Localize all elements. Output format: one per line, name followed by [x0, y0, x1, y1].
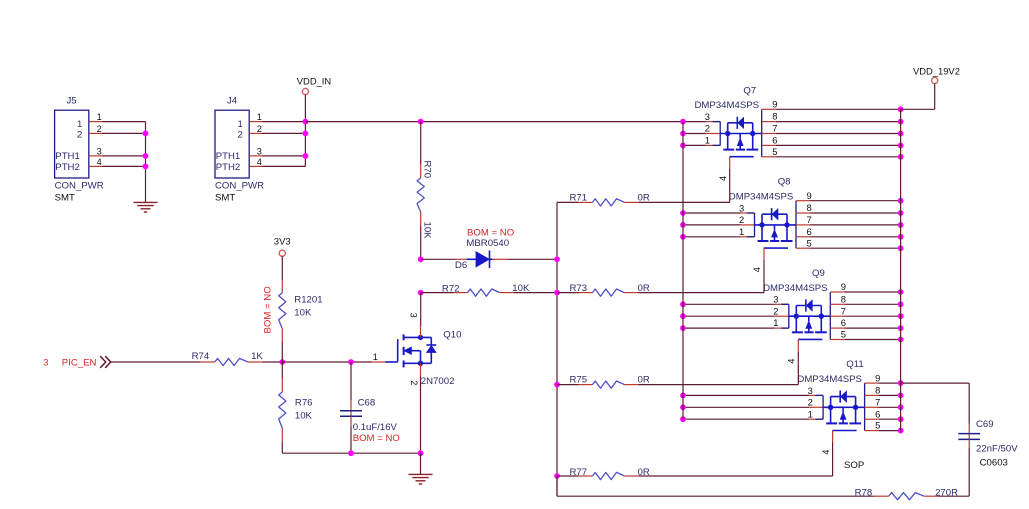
transistor Q10 labels [421, 329, 462, 387]
J5 pin numbers [97, 112, 102, 167]
transistor Q7 pin 4 label [718, 176, 728, 181]
svg-text:4: 4 [97, 157, 102, 167]
svg-text:2: 2 [409, 380, 419, 385]
svg-text:PTH1: PTH1 [216, 151, 241, 162]
wire R77 to gate pin 4 [832, 431, 834, 477]
svg-text:Q9: Q9 [812, 268, 825, 279]
svg-text:DMP34M4SPS: DMP34M4SPS [695, 100, 760, 111]
svg-text:DMP34M4SPS: DMP34M4SPS [729, 192, 794, 203]
svg-text:4: 4 [821, 450, 831, 455]
svg-text:10K: 10K [295, 410, 313, 421]
svg-text:1: 1 [773, 317, 778, 328]
diode D6 [455, 228, 514, 271]
node 3V3 [274, 236, 291, 257]
svg-text:VDD_IN: VDD_IN [297, 76, 331, 87]
svg-text:PIC_EN: PIC_EN [62, 357, 97, 368]
transistor Q8 pin numbers 3 2 1 [739, 202, 744, 237]
transistor Q9 labels [763, 268, 828, 294]
svg-text:8: 8 [772, 111, 777, 122]
transistor Q8 right pin box [795, 201, 797, 249]
svg-text:4: 4 [752, 267, 762, 272]
transistor Q8 drain pin wires [796, 198, 903, 251]
svg-text:4: 4 [718, 176, 728, 181]
connector J4 [215, 96, 264, 204]
transistor Q8 pin wires 3 2 1 [680, 210, 754, 240]
svg-text:2: 2 [257, 124, 262, 134]
svg-text:5: 5 [875, 420, 880, 431]
svg-text:9: 9 [807, 190, 812, 201]
svg-text:22nF/50V: 22nF/50V [976, 444, 1018, 455]
svg-text:7: 7 [841, 305, 846, 316]
svg-text:R78: R78 [855, 487, 873, 498]
svg-text:0R: 0R [638, 375, 650, 386]
svg-text:Q10: Q10 [443, 329, 461, 340]
transistor Q7 right pin box [761, 109, 763, 157]
transistor Q8 PMOS symbol [755, 208, 797, 248]
svg-text:8: 8 [807, 202, 812, 213]
svg-text:2: 2 [97, 124, 102, 134]
svg-text:1: 1 [808, 408, 813, 419]
wire VDD_IN bus [305, 119, 683, 125]
svg-text:1: 1 [257, 112, 262, 122]
transistor Q9 drain pin wires [830, 289, 903, 342]
transistor Q11 PMOS symbol [823, 391, 865, 431]
transistor Q11 pin numbers 3 2 1 [808, 385, 813, 420]
wire VDD_IN riser [303, 95, 309, 167]
ground [134, 202, 158, 212]
transistor Q8 labels [729, 177, 794, 203]
svg-text:J4: J4 [227, 96, 238, 107]
svg-text:SMT: SMT [55, 193, 75, 204]
wire PIC_EN to Q10 gate [279, 359, 385, 365]
svg-text:R75: R75 [570, 375, 588, 386]
svg-text:0.1uF/16V: 0.1uF/16V [353, 422, 398, 433]
transistor Q8 left pin box [747, 213, 755, 237]
wire D6 anode [418, 256, 467, 262]
transistor Q7 pin numbers 3 2 1 [705, 111, 710, 146]
wire gate distribution bus [554, 202, 560, 496]
svg-text:2N7002: 2N7002 [421, 376, 455, 387]
resistor R70 [417, 122, 433, 260]
svg-text:0R: 0R [638, 467, 650, 478]
svg-text:CON_PWR: CON_PWR [55, 181, 104, 192]
transistor Q8 pin 4 label [752, 267, 762, 272]
svg-text:2: 2 [237, 130, 242, 141]
transistor Q9 left pin box [781, 304, 789, 328]
transistor Q7 drain pin wires [762, 106, 904, 159]
svg-text:3: 3 [773, 294, 778, 305]
transistor Q7 PMOS symbol [720, 117, 762, 157]
transistor Q11 labels [797, 359, 863, 385]
transistor Q9 pin numbers 3 2 1 [773, 294, 778, 329]
svg-text:3: 3 [97, 146, 102, 156]
svg-text:C69: C69 [976, 419, 994, 430]
wire VDD rail vertical [682, 122, 684, 420]
svg-text:0R: 0R [638, 283, 650, 294]
svg-text:2: 2 [773, 305, 778, 316]
svg-text:10K: 10K [422, 222, 433, 240]
svg-text:J5: J5 [67, 96, 77, 107]
svg-text:C68: C68 [358, 398, 376, 409]
svg-text:R73: R73 [570, 283, 588, 294]
transistor Q7 left pin box [713, 122, 721, 146]
svg-text:BOM = NO: BOM = NO [353, 433, 400, 444]
wire ground net [282, 450, 423, 456]
svg-text:R72: R72 [442, 283, 460, 294]
svg-text:R76: R76 [295, 398, 313, 409]
svg-text:BOM = NO: BOM = NO [263, 286, 274, 333]
wire D6 cathode [493, 258, 557, 260]
J5 pin wires [89, 122, 146, 167]
J4 pin numbers [257, 112, 262, 167]
svg-text:D6: D6 [455, 260, 467, 271]
capacitor C68 [340, 362, 400, 453]
svg-text:1: 1 [373, 352, 378, 362]
label SOP [844, 460, 864, 471]
svg-text:1: 1 [77, 119, 82, 130]
node VDD_IN [297, 76, 331, 95]
svg-text:R70: R70 [422, 161, 433, 179]
svg-text:SMT: SMT [215, 193, 235, 204]
svg-text:3: 3 [739, 202, 744, 213]
svg-text:9: 9 [772, 99, 777, 110]
wire Q11 pin9 to C69 [901, 383, 970, 434]
svg-text:SOP: SOP [844, 460, 864, 471]
resistor R73 [557, 283, 764, 296]
svg-text:PTH2: PTH2 [55, 162, 80, 173]
svg-text:1: 1 [97, 112, 102, 122]
svg-text:4: 4 [257, 157, 262, 167]
svg-text:10K: 10K [294, 308, 312, 319]
node PIC_EN off-page connector [43, 356, 111, 368]
svg-text:7: 7 [772, 123, 777, 134]
svg-text:1: 1 [705, 135, 710, 146]
svg-text:BOM = NO: BOM = NO [467, 228, 514, 239]
svg-text:1: 1 [739, 226, 744, 237]
svg-text:Q11: Q11 [846, 359, 863, 370]
svg-text:PTH2: PTH2 [216, 162, 241, 173]
svg-text:Q8: Q8 [778, 177, 791, 188]
svg-text:3: 3 [257, 146, 262, 156]
wire VDD_19V2 riser [901, 84, 935, 110]
J4 pin wires [249, 122, 305, 167]
transistor Q9 pin 4 label [787, 359, 797, 364]
svg-text:9: 9 [841, 281, 846, 292]
transistor Q11 drain pin wires [865, 380, 904, 433]
svg-text:VDD_19V2: VDD_19V2 [913, 65, 960, 76]
svg-text:6: 6 [841, 317, 846, 328]
transistor Q9 pin numbers 9 8 7 6 5 [841, 281, 846, 339]
svg-text:DMP34M4SPS: DMP34M4SPS [797, 374, 862, 385]
transistor Q11 left pin box [816, 395, 824, 419]
wire drain bus vertical [900, 109, 902, 430]
svg-text:R1201: R1201 [294, 295, 322, 306]
svg-text:PTH1: PTH1 [55, 151, 80, 162]
svg-text:2: 2 [77, 130, 82, 141]
svg-text:8: 8 [875, 385, 880, 396]
svg-text:270R: 270R [935, 487, 958, 498]
transistor Q8 pin numbers 9 8 7 6 5 [807, 190, 812, 248]
wire Q10 source [420, 363, 422, 453]
resistor R77 [557, 467, 833, 480]
transistor Q7 pin wires 3 2 1 [680, 119, 720, 149]
transistor Q10 NMOS [385, 334, 436, 367]
svg-text:8: 8 [841, 293, 846, 304]
svg-text:3: 3 [409, 313, 419, 318]
svg-text:R77: R77 [570, 467, 588, 478]
resistor R74 [111, 351, 282, 366]
svg-text:6: 6 [807, 226, 812, 237]
svg-text:1: 1 [237, 119, 242, 130]
svg-text:10K: 10K [512, 283, 530, 294]
label BOM = NO vertical [263, 286, 274, 333]
transistor Q11 pin 4 label [821, 450, 831, 455]
transistor Q9 right pin box [829, 292, 831, 340]
resistor R1201 [279, 256, 323, 362]
resistor R76 [279, 362, 313, 453]
transistor Q11 pin numbers 9 8 7 6 5 [875, 372, 880, 430]
svg-text:3: 3 [705, 111, 710, 122]
svg-text:2: 2 [739, 214, 744, 225]
svg-text:3: 3 [808, 385, 813, 396]
svg-text:0R: 0R [638, 193, 650, 204]
node VDD_19V2 [913, 65, 960, 83]
resistor R78 [557, 476, 969, 500]
svg-text:5: 5 [841, 329, 846, 340]
svg-text:4: 4 [787, 359, 797, 364]
svg-text:CON_PWR: CON_PWR [215, 181, 264, 192]
svg-text:7: 7 [807, 214, 812, 225]
svg-text:R71: R71 [570, 193, 588, 204]
wire R71 to gate pin 4 [729, 157, 731, 203]
wire J5 ground bus [143, 122, 149, 202]
transistor Q11 pin wires 3 2 1 [680, 393, 823, 423]
transistor Q9 pin wires 3 2 1 [680, 301, 789, 331]
svg-text:Q7: Q7 [743, 85, 756, 96]
svg-text:3: 3 [43, 357, 48, 368]
wire C69 to R78 [968, 439, 970, 496]
svg-text:3V3: 3V3 [274, 236, 291, 247]
transistor Q7 pin numbers 9 8 7 6 5 [772, 99, 777, 157]
resistor R71 [557, 193, 730, 206]
svg-text:7: 7 [875, 397, 880, 408]
svg-text:MBR0540: MBR0540 [466, 238, 509, 249]
capacitor C69 [958, 419, 1018, 468]
wire Q10 drain [420, 293, 422, 338]
transistor Q7 labels [695, 85, 760, 111]
transistor Q9 PMOS symbol [789, 299, 831, 339]
resistor R72 [418, 283, 557, 296]
svg-text:DMP34M4SPS: DMP34M4SPS [763, 283, 828, 294]
connector J5 [55, 96, 104, 204]
svg-text:R74: R74 [192, 351, 210, 362]
svg-text:2: 2 [808, 397, 813, 408]
svg-text:1K: 1K [251, 351, 263, 362]
svg-text:9: 9 [875, 372, 880, 383]
svg-text:5: 5 [772, 146, 777, 157]
transistor Q10 pin numbers [373, 313, 419, 386]
transistor Q11 right pin box [864, 383, 866, 431]
wire R73 to gate pin 4 [763, 248, 765, 293]
ground [409, 453, 433, 484]
resistor R75 [557, 375, 798, 389]
svg-text:5: 5 [807, 237, 812, 248]
wire R75 to gate pin 4 [797, 339, 799, 384]
svg-text:2: 2 [705, 123, 710, 134]
svg-text:6: 6 [772, 135, 777, 146]
svg-text:C0603: C0603 [980, 457, 1008, 468]
svg-text:6: 6 [875, 408, 880, 419]
